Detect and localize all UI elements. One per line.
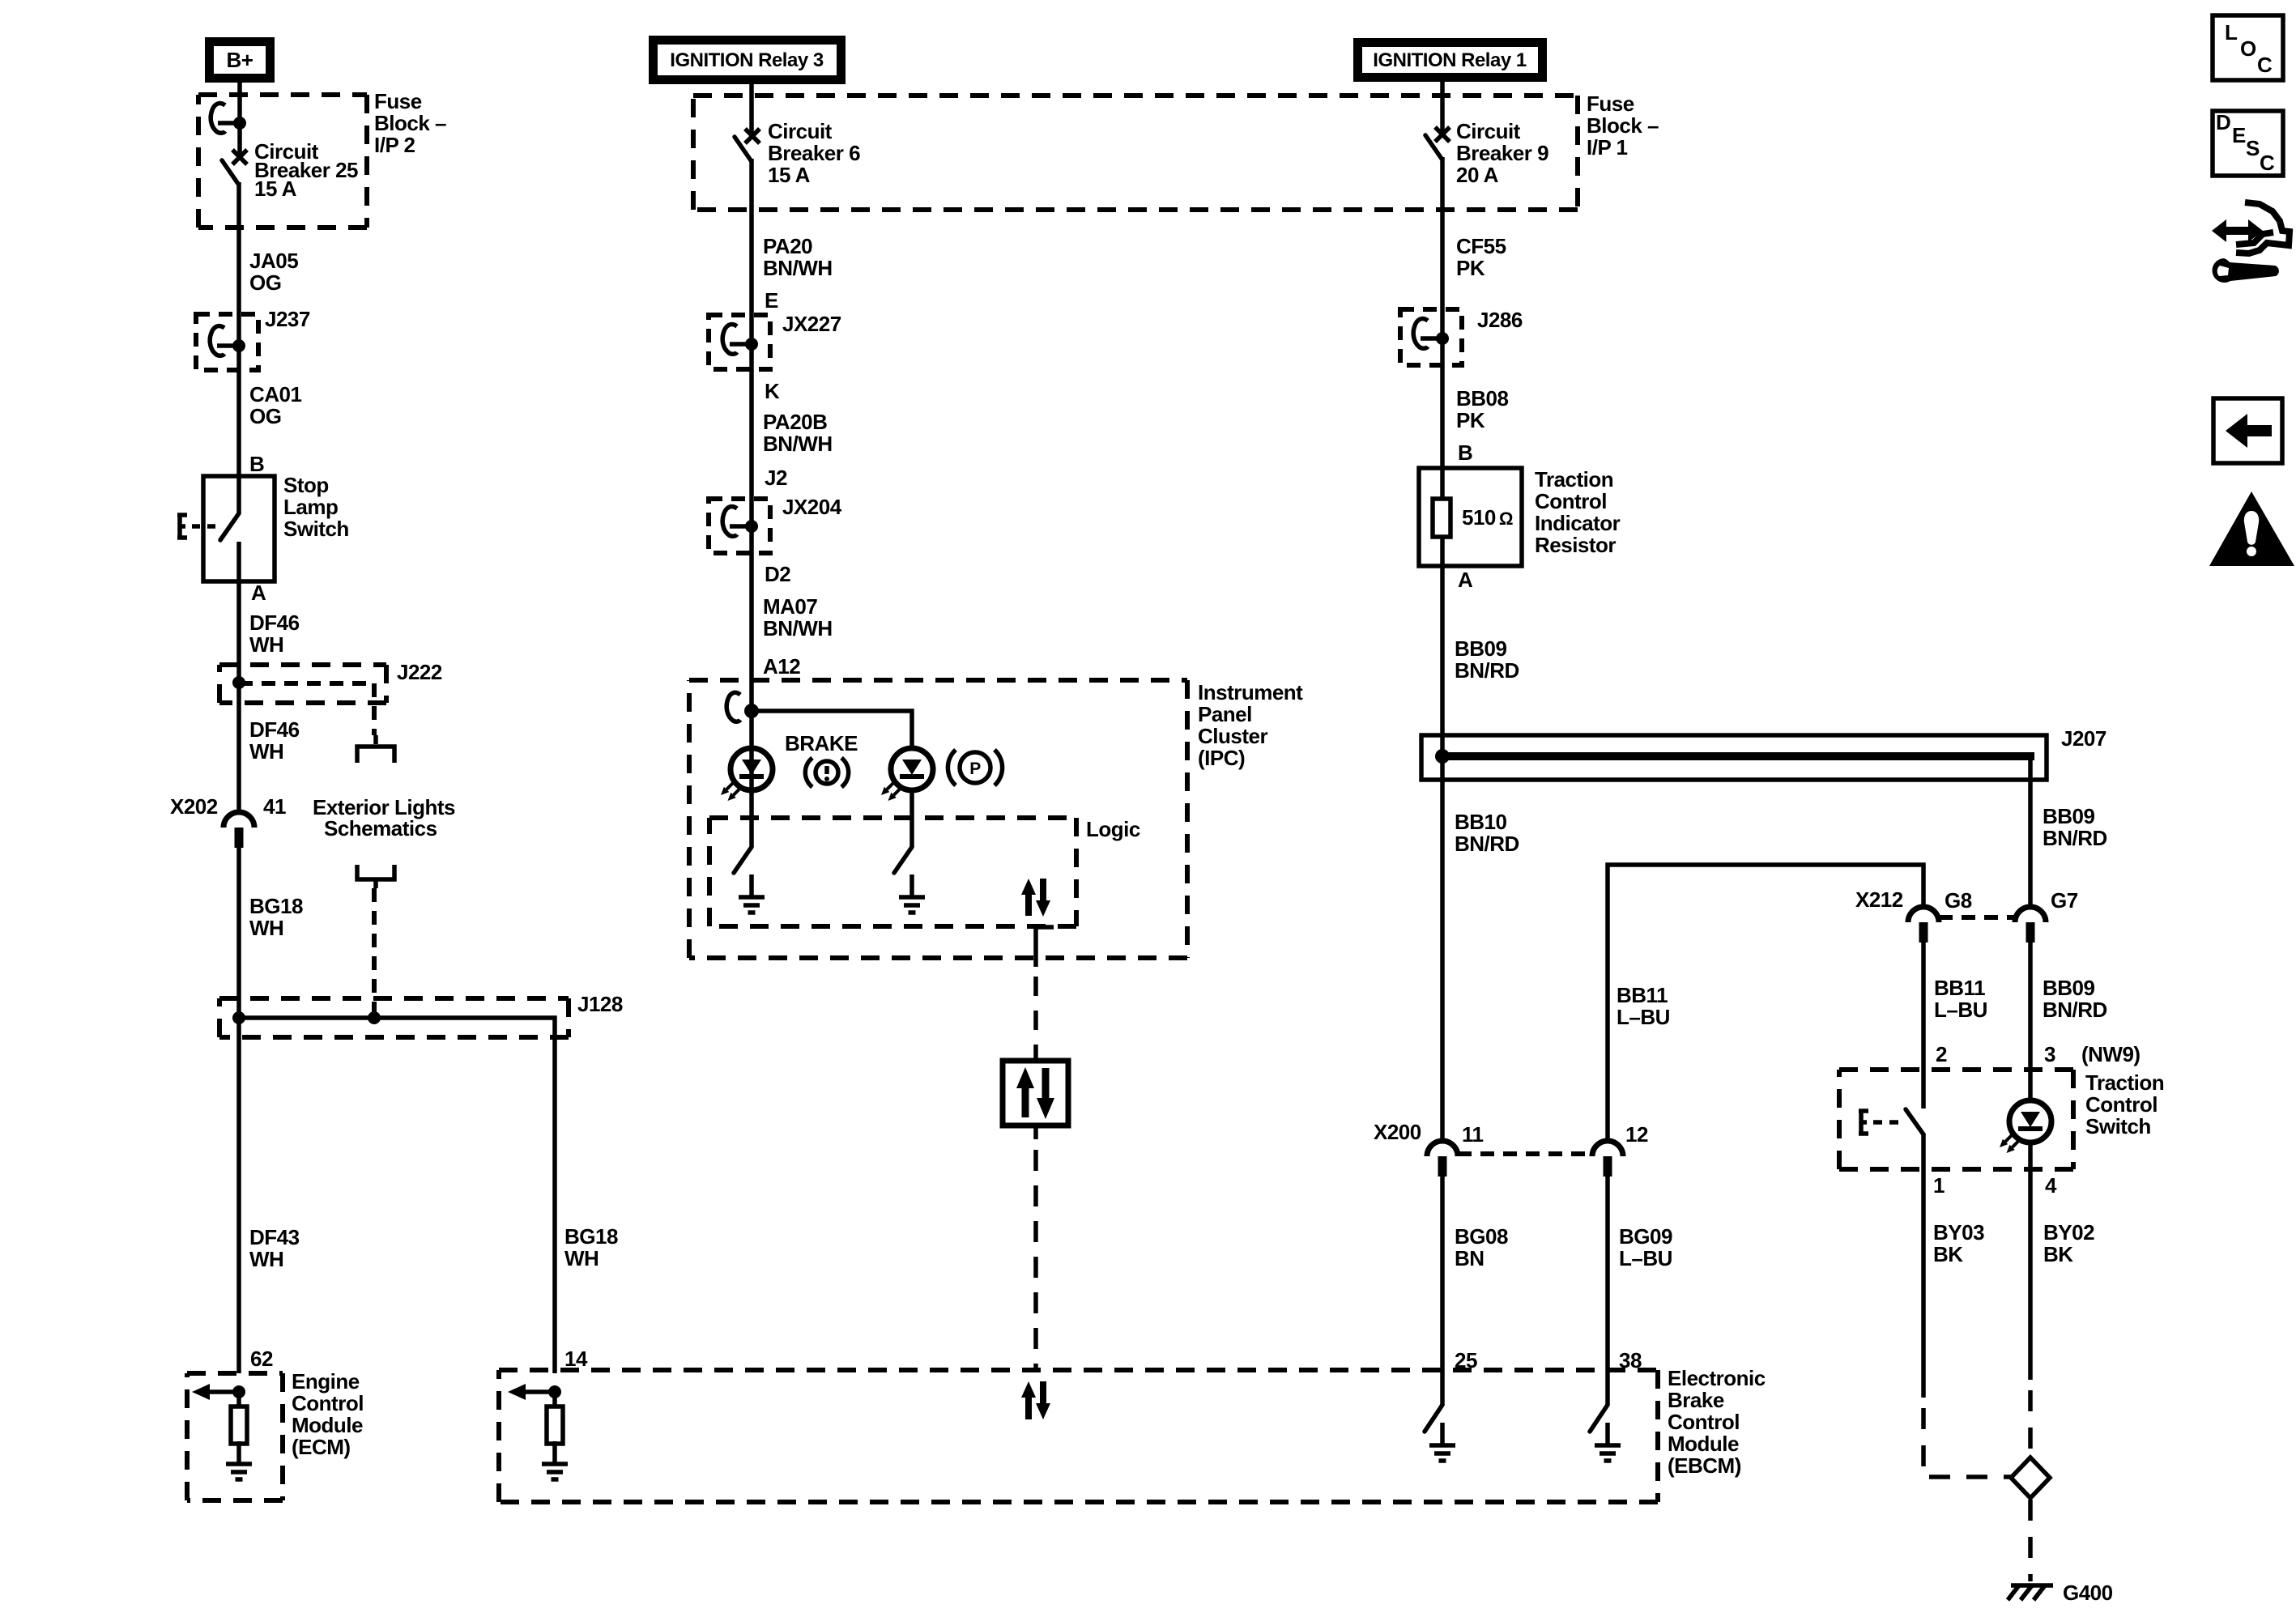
svg-text:Panel: Panel xyxy=(1198,702,1252,726)
label Instrument Panel Cluster (IPC) xyxy=(1198,680,1303,770)
svg-text:41: 41 xyxy=(263,794,286,819)
svg-text:DF46: DF46 xyxy=(249,611,300,635)
splice diamond xyxy=(2011,1457,2050,1498)
wire lamp pin 4 down xyxy=(2028,1143,2033,1380)
ECM internal resistor xyxy=(231,1392,247,1444)
label Exterior Lights Schematics xyxy=(313,795,455,840)
svg-text:I/P 1: I/P 1 xyxy=(1587,135,1628,160)
dashed wire BY02 to diamond xyxy=(2028,1390,2033,1457)
EBCM switch blade pin 25 xyxy=(1425,1405,1442,1432)
dashed wire BY03 to diamond xyxy=(1923,1408,2012,1477)
circuit breaker 9 blade xyxy=(1425,135,1442,159)
svg-text:62: 62 xyxy=(250,1347,273,1371)
svg-text:K: K xyxy=(765,379,780,403)
svg-text:L–BU: L–BU xyxy=(1619,1246,1672,1270)
svg-text:L–BU: L–BU xyxy=(1934,998,1987,1022)
label BG18 WH right branch xyxy=(564,1224,618,1270)
circuit breaker 9 contact star xyxy=(1435,127,1450,142)
svg-text:Block –: Block – xyxy=(1587,113,1659,138)
splice J237 dashed box xyxy=(196,314,258,370)
svg-text:BK: BK xyxy=(2043,1242,2073,1266)
svg-text:WH: WH xyxy=(249,916,283,940)
IGNITION Relay 3 feed box xyxy=(649,36,846,84)
wire J286 to resistor xyxy=(1440,338,1445,499)
svg-text:Switch: Switch xyxy=(283,517,349,541)
svg-text:J222: J222 xyxy=(397,660,442,684)
svg-text:Fuse: Fuse xyxy=(374,89,422,113)
exterior lights dashed wire to J128 xyxy=(372,888,377,1018)
circuit breaker 25 contact star xyxy=(232,150,247,164)
svg-text:I/P 2: I/P 2 xyxy=(374,133,415,157)
splice JX227 dashed box xyxy=(709,315,770,369)
label BG08 BN xyxy=(1455,1224,1508,1270)
label BB09 BN/RD far right xyxy=(2043,976,2107,1022)
wire into left lamp xyxy=(749,711,754,847)
svg-text:BN: BN xyxy=(1455,1246,1485,1270)
svg-text:PA20B: PA20B xyxy=(763,410,827,434)
svg-text:15 A: 15 A xyxy=(768,163,811,187)
logic dashed box xyxy=(709,818,1076,926)
svg-text:Control: Control xyxy=(1535,489,1607,513)
logic right ground xyxy=(899,874,925,913)
harness repair icon xyxy=(2212,202,2290,283)
logic left switch blade xyxy=(734,847,752,873)
svg-text:BB08: BB08 xyxy=(1456,386,1509,411)
splice pack J207 junction dot xyxy=(1435,749,1450,764)
wire relay 3 to breaker 6 xyxy=(749,84,754,134)
svg-text:IGNITION Relay 1: IGNITION Relay 1 xyxy=(1373,49,1527,71)
svg-text:Traction: Traction xyxy=(1535,467,1613,491)
svg-text:BN/WH: BN/WH xyxy=(763,616,833,640)
switch E actuator xyxy=(1859,1111,1898,1134)
wire BG08 to EBCM xyxy=(1440,1177,1445,1405)
wire switch pin 1 down xyxy=(1921,1134,1926,1398)
svg-text:11: 11 xyxy=(1462,1122,1484,1147)
svg-text:12: 12 xyxy=(1625,1122,1648,1147)
svg-text:(EBCM): (EBCM) xyxy=(1668,1453,1741,1478)
connector X202 xyxy=(224,812,254,848)
splice J128 junction dots xyxy=(232,1011,381,1024)
wire BG09 to EBCM xyxy=(1605,1177,1610,1405)
svg-text:BB11: BB11 xyxy=(1934,976,1985,1000)
svg-text:Cluster: Cluster xyxy=(1198,724,1267,748)
traction control indicator resistor box xyxy=(1419,468,1522,566)
svg-text:Circuit: Circuit xyxy=(1456,119,1521,143)
svg-text:J2: J2 xyxy=(765,466,787,490)
label BY03 BK xyxy=(1933,1220,1984,1266)
serial data elbow wire xyxy=(1036,927,1054,967)
label BY02 BK xyxy=(2043,1220,2094,1266)
svg-text:CA01: CA01 xyxy=(249,382,302,406)
X212 dashed link xyxy=(1939,915,2015,920)
label Electronic Brake Control Module (EBCM) xyxy=(1668,1366,1766,1478)
svg-text:O: O xyxy=(2240,36,2256,61)
EBCM left entry arrow pin 14 xyxy=(508,1384,561,1400)
svg-text:OG: OG xyxy=(249,404,281,428)
serial data stub below box xyxy=(1033,1126,1038,1139)
svg-text:Engine: Engine xyxy=(292,1369,360,1394)
DESC navigation icon xyxy=(2213,110,2283,176)
svg-text:JX227: JX227 xyxy=(782,312,841,336)
wire J237 to stop lamp switch xyxy=(236,346,241,513)
label BB08 PK xyxy=(1456,386,1509,432)
svg-text:BB10: BB10 xyxy=(1455,810,1507,834)
svg-text:4: 4 xyxy=(2045,1173,2057,1198)
svg-text:BY02: BY02 xyxy=(2043,1220,2094,1245)
svg-text:Circuit: Circuit xyxy=(768,119,833,143)
svg-text:Switch: Switch xyxy=(2085,1114,2151,1138)
svg-text:BN/RD: BN/RD xyxy=(1455,832,1519,856)
svg-text:2: 2 xyxy=(1936,1042,1947,1066)
logic serial data arrows xyxy=(1021,879,1050,917)
svg-text:J128: J128 xyxy=(577,992,623,1016)
wire breaker 25 to J237 xyxy=(236,182,241,346)
svg-text:BB11: BB11 xyxy=(1617,983,1668,1007)
label BB10 BN/RD xyxy=(1455,810,1519,856)
svg-text:PA20: PA20 xyxy=(763,234,812,258)
label BB11 L-BU left xyxy=(1617,983,1670,1029)
EBCM wide dashed box xyxy=(499,1370,1658,1502)
svg-text:C: C xyxy=(2260,151,2275,175)
svg-text:B: B xyxy=(249,452,264,476)
splice J286 dashed box xyxy=(1400,309,1462,365)
svg-text:WH: WH xyxy=(249,1247,283,1271)
label PA20 BN/WH xyxy=(763,234,833,280)
svg-text:38: 38 xyxy=(1619,1348,1642,1372)
svg-text:WH: WH xyxy=(249,739,283,764)
svg-text:Traction: Traction xyxy=(2085,1070,2164,1095)
connector X200 pin 12 xyxy=(1592,1141,1623,1177)
svg-text:Block –: Block – xyxy=(374,111,446,135)
IPC junction dot xyxy=(744,704,759,718)
svg-text:Brake: Brake xyxy=(1668,1388,1724,1412)
wire J207 to X200 pin 11 xyxy=(1440,780,1445,1141)
svg-text:Module: Module xyxy=(1668,1432,1739,1456)
svg-text:BN/RD: BN/RD xyxy=(2043,998,2107,1022)
svg-text:Control: Control xyxy=(292,1391,364,1415)
svg-text:BN/RD: BN/RD xyxy=(1455,658,1519,683)
svg-text:PK: PK xyxy=(1456,256,1485,280)
LOC navigation icon xyxy=(2213,15,2283,80)
stop lamp switch E actuator xyxy=(177,515,215,538)
label DF43 WH xyxy=(249,1225,300,1271)
svg-text:Resistor: Resistor xyxy=(1535,533,1616,557)
traction switch lamp xyxy=(2000,1100,2051,1153)
logic left ground xyxy=(739,874,765,913)
svg-text:Electronic: Electronic xyxy=(1668,1366,1766,1390)
wire breaker 6 to JX227 xyxy=(749,159,754,344)
svg-text:BRAKE: BRAKE xyxy=(785,731,858,755)
wire IPC branch to right lamp xyxy=(752,711,912,748)
svg-text:Indicator: Indicator xyxy=(1535,511,1621,535)
label Stop Lamp Switch xyxy=(283,473,349,541)
svg-text:MA07: MA07 xyxy=(763,594,817,619)
svg-text:BY03: BY03 xyxy=(1933,1220,1984,1245)
svg-text:L: L xyxy=(2225,20,2238,45)
wire right lamp down xyxy=(909,790,914,847)
stop lamp switch lower contact xyxy=(236,542,241,581)
svg-text:BB09: BB09 xyxy=(1455,636,1507,661)
svg-text:DF43: DF43 xyxy=(249,1225,300,1249)
fuse block I/P 2 dashed box xyxy=(198,95,367,228)
stop lamp switch box xyxy=(203,476,275,581)
traction switch blade xyxy=(1906,1109,1923,1134)
svg-text:P: P xyxy=(969,760,981,778)
svg-text:BN/WH: BN/WH xyxy=(763,256,833,280)
svg-text:D2: D2 xyxy=(765,562,790,586)
svg-text:JA05: JA05 xyxy=(249,249,298,273)
svg-text:(NW9): (NW9) xyxy=(2081,1042,2141,1066)
chassis ground G400 xyxy=(2008,1585,2053,1600)
label BG18 WH xyxy=(249,894,303,940)
svg-text:CF55: CF55 xyxy=(1456,234,1506,258)
svg-text:OG: OG xyxy=(249,270,281,295)
svg-text:Schematics: Schematics xyxy=(324,816,437,840)
svg-text:Fuse: Fuse xyxy=(1587,91,1634,116)
splice J128 wire xyxy=(239,1018,555,1373)
svg-text:E: E xyxy=(765,288,778,313)
serial data dashed wire xyxy=(1033,977,1038,1062)
splice J222 dashed box xyxy=(219,665,386,703)
label JA05 OG xyxy=(249,249,298,295)
svg-text:Breaker 9: Breaker 9 xyxy=(1456,141,1548,165)
IPC terminal hook xyxy=(726,692,740,721)
B+ power feed box xyxy=(205,37,275,83)
label Traction Control Switch xyxy=(2085,1070,2164,1138)
ECM dashed box xyxy=(187,1373,283,1500)
serial data dashed wire to EBCM xyxy=(1033,1150,1038,1372)
label MA07 BN/WH xyxy=(763,594,833,640)
svg-text:PK: PK xyxy=(1456,408,1485,432)
wire relay 1 to breaker 9 xyxy=(1440,82,1445,133)
fuse block I/P 1 wide dashed box xyxy=(693,96,1578,210)
back arrow navigation icon xyxy=(2213,398,2282,463)
splice J222 junction dot xyxy=(232,676,245,689)
svg-text:X212: X212 xyxy=(1855,887,1903,912)
svg-text:X200: X200 xyxy=(1374,1120,1421,1144)
svg-text:BK: BK xyxy=(1933,1242,1963,1266)
svg-text:BG18: BG18 xyxy=(249,894,303,918)
brake indicator symbol (!) xyxy=(805,758,848,787)
wire B+ to fuse block xyxy=(237,83,242,157)
EBCM ground pin 38 xyxy=(1595,1423,1621,1461)
svg-text:14: 14 xyxy=(564,1347,588,1371)
svg-text:510Ω: 510Ω xyxy=(1462,505,1513,530)
wire X202 to J128 xyxy=(236,847,241,1373)
svg-text:Logic: Logic xyxy=(1086,817,1140,841)
serial data box arrows xyxy=(1016,1067,1054,1119)
wire breaker 9 to J286 xyxy=(1440,157,1445,338)
svg-text:B+: B+ xyxy=(227,48,253,72)
wire J207 right drop BB09 xyxy=(2028,756,2033,907)
svg-text:WH: WH xyxy=(564,1246,598,1270)
IGNITION Relay 1 feed box xyxy=(1353,38,1547,82)
wire G7 to lamp pin 3 xyxy=(2028,943,2033,1100)
svg-text:D: D xyxy=(2216,110,2230,134)
svg-text:X202: X202 xyxy=(170,794,218,819)
svg-text:(IPC): (IPC) xyxy=(1198,746,1245,770)
svg-text:S: S xyxy=(2246,136,2260,160)
svg-text:E: E xyxy=(2232,123,2246,147)
svg-text:Module: Module xyxy=(292,1413,363,1437)
traction control switch dashed box xyxy=(1839,1070,2073,1169)
serial data connector box xyxy=(1003,1061,1068,1126)
wire resistor to J207 xyxy=(1440,566,1445,780)
svg-text:JX204: JX204 xyxy=(782,495,842,519)
warning triangle icon xyxy=(2209,491,2294,566)
resistor element xyxy=(1433,499,1450,566)
svg-text:L–BU: L–BU xyxy=(1617,1005,1670,1029)
IPC dashed box xyxy=(689,680,1187,958)
splice JX204 dashed box xyxy=(709,499,770,553)
EBCM left internal ground xyxy=(542,1441,568,1479)
label BB09 BN/RD xyxy=(1455,636,1519,683)
stop lamp switch blade xyxy=(220,513,239,540)
EBCM ground pin 25 xyxy=(1429,1423,1455,1461)
connector X212 G8 xyxy=(1908,907,1939,943)
fuse block terminal hook xyxy=(211,104,246,134)
splice JX204 hook xyxy=(722,507,758,537)
label BB11 L-BU right xyxy=(1934,976,1987,1022)
splice pack J207 outer box xyxy=(1421,735,2047,780)
EBCM switch blade pin 38 xyxy=(1590,1405,1608,1432)
label Circuit Breaker 25 15 A xyxy=(254,139,358,201)
svg-text:BN/RD: BN/RD xyxy=(2043,826,2107,850)
svg-text:(ECM): (ECM) xyxy=(292,1435,351,1459)
svg-text:BB09: BB09 xyxy=(2043,976,2095,1000)
dashed wire diamond to G400 xyxy=(2028,1500,2033,1581)
svg-text:G400: G400 xyxy=(2063,1581,2113,1605)
svg-text:A: A xyxy=(251,581,266,605)
exterior lights bracket bottom xyxy=(357,865,394,888)
svg-text:BG08: BG08 xyxy=(1455,1224,1508,1249)
ECM internal ground xyxy=(226,1441,252,1479)
svg-text:J237: J237 xyxy=(265,307,310,331)
svg-text:BB09: BB09 xyxy=(2043,804,2095,828)
wire G8 to switch pin 2 xyxy=(1921,943,1926,1108)
svg-text:25: 25 xyxy=(1455,1348,1477,1372)
svg-text:20 A: 20 A xyxy=(1456,163,1499,187)
wire BB11 up-over from pin 12 xyxy=(1608,865,1923,1141)
circuit breaker 6 contact star xyxy=(745,129,760,143)
circuit breaker 6 blade xyxy=(735,137,751,160)
ECM internal arrow xyxy=(192,1384,245,1400)
EBCM left internal resistor xyxy=(547,1392,563,1444)
svg-text:C: C xyxy=(2257,53,2273,77)
label Circuit Breaker 6 15 A xyxy=(768,119,860,187)
splice J128 dashed box xyxy=(219,998,569,1037)
wire JX227 to JX204 xyxy=(749,344,754,526)
svg-text:Control: Control xyxy=(2085,1092,2158,1117)
label DF46 WH below J222 xyxy=(249,717,300,764)
brake warning lamp right xyxy=(881,748,933,801)
label Fuse Block I/P 1 xyxy=(1587,91,1659,160)
svg-text:Control: Control xyxy=(1668,1410,1740,1434)
label BG09 L-BU xyxy=(1619,1224,1672,1270)
connector X200 pin 11 xyxy=(1427,1141,1458,1177)
label Traction Control Indicator Resistor xyxy=(1535,467,1621,557)
svg-text:BG09: BG09 xyxy=(1619,1224,1672,1249)
label Fuse Block I/P 2 xyxy=(374,89,446,157)
circuit breaker 25 blade xyxy=(222,160,238,184)
svg-text:A: A xyxy=(1458,568,1473,592)
svg-text:G8: G8 xyxy=(1945,888,1972,913)
svg-text:A12: A12 xyxy=(763,654,800,679)
svg-text:3: 3 xyxy=(2044,1042,2055,1066)
label CA01 OG xyxy=(249,382,302,428)
label CF55 PK xyxy=(1456,234,1506,280)
label BB09 BN/RD right xyxy=(2043,804,2107,850)
svg-text:Instrument: Instrument xyxy=(1198,680,1303,704)
svg-text:B: B xyxy=(1458,440,1472,465)
splice JX227 hook xyxy=(722,325,758,355)
svg-text:J286: J286 xyxy=(1477,308,1523,332)
label PA20B BN/WH xyxy=(763,410,833,456)
exterior lights bracket top xyxy=(357,735,394,763)
label Circuit Breaker 9 20 A xyxy=(1456,119,1548,187)
logic right switch blade xyxy=(894,847,912,873)
connector X212 G7 xyxy=(2015,907,2046,943)
svg-text:BG18: BG18 xyxy=(564,1224,618,1249)
splice J286 hook xyxy=(1413,319,1449,349)
svg-text:15 A: 15 A xyxy=(254,177,297,201)
X200 dashed link xyxy=(1458,1151,1592,1156)
svg-text:Lamp: Lamp xyxy=(283,495,338,519)
svg-text:DF46: DF46 xyxy=(249,717,300,742)
svg-text:Stop: Stop xyxy=(283,473,329,497)
park brake indicator symbol (P) xyxy=(948,750,1002,785)
splice J237 hook xyxy=(210,326,245,356)
svg-text:Breaker 6: Breaker 6 xyxy=(768,141,860,165)
svg-text:J207: J207 xyxy=(2061,726,2106,751)
EBCM serial data arrows xyxy=(1021,1381,1050,1419)
brake warning lamp left xyxy=(721,748,773,801)
label Engine Control Module (ECM) xyxy=(292,1369,364,1459)
svg-text:WH: WH xyxy=(249,632,283,657)
wire JX204 to IPC xyxy=(749,526,754,711)
svg-text:G7: G7 xyxy=(2051,888,2078,913)
splice pack J207 bus bar xyxy=(1439,752,2034,760)
svg-text:BN/WH: BN/WH xyxy=(763,432,833,456)
wire switch to J222 xyxy=(236,581,241,814)
svg-text:1: 1 xyxy=(1933,1173,1945,1198)
svg-text:IGNITION Relay 3: IGNITION Relay 3 xyxy=(670,49,824,71)
splice J222 branch dashed xyxy=(239,683,374,735)
label DF46 WH xyxy=(249,611,300,657)
